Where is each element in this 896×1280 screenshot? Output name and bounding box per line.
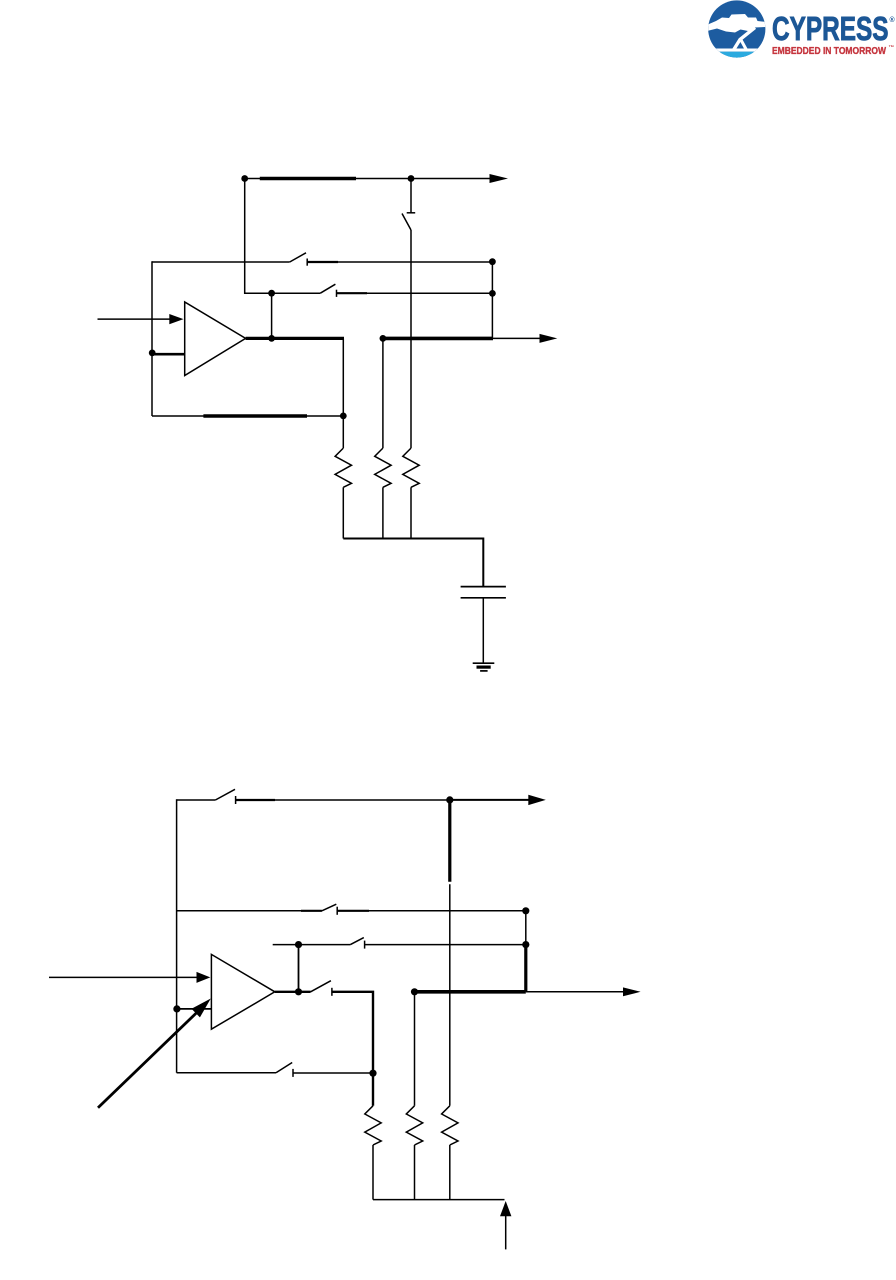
wire right bus thick lower (524, 945, 527, 992)
wire SW6 left stub (273, 944, 299, 946)
wire input 1 (98, 318, 171, 320)
arrow reference up (500, 1201, 511, 1216)
node feedback junction (340, 413, 347, 420)
wire SW7 to elbow down (332, 992, 373, 1106)
resistor R5 (406, 1106, 422, 1145)
ground symbol (473, 663, 495, 671)
wire SW1 bold segment (307, 261, 338, 263)
wire node A down elbow (245, 179, 272, 294)
wire SW2 to right bus (337, 292, 493, 294)
svg-text:™: ™ (889, 45, 895, 51)
switch SW5 contact (336, 907, 338, 915)
capacitor C1 bottom plate (461, 597, 506, 599)
wire left rail fig2 (176, 799, 178, 1073)
capacitor C1 top plate (461, 586, 506, 588)
wire inverting input fig2 (177, 1008, 212, 1010)
wire R5 bottom lead (414, 1145, 416, 1200)
wire SW6 to right bus (365, 944, 526, 946)
node top output junction (446, 796, 453, 803)
switch SW6 contact (364, 941, 366, 949)
wire thin continuation down to R3 (449, 884, 451, 1106)
arrow main output fig2 (623, 987, 641, 996)
arrow top output fig2 (528, 795, 546, 805)
switch SW8 blade (276, 1063, 292, 1073)
wire left feedback rail (151, 261, 153, 416)
tree trunk (734, 28, 756, 51)
wire SW4 bold segment (236, 799, 275, 801)
switch SW7 blade (311, 981, 331, 992)
wire SW6 junction down to output (298, 945, 300, 992)
wire R1 bottom lead (342, 487, 344, 538)
wire SW5 bold pre-blade segment (301, 910, 322, 912)
wire op-amp output stub (275, 991, 311, 993)
wire bottom rail to capacitor (343, 539, 483, 587)
wire bus down to R2 fig2 (414, 992, 416, 1106)
svg-text:CYPRESS: CYPRESS (772, 10, 889, 47)
wire SW8 to junction (293, 1072, 373, 1074)
tree canopy (703, 14, 770, 33)
wire bottom rail fig2 (373, 1199, 505, 1201)
wire capacitor to ground (482, 599, 484, 664)
switch SW1 contact (306, 259, 308, 266)
wire to top arrow (450, 799, 529, 801)
water gap (705, 49, 769, 52)
wire SW5 bold segment (337, 910, 369, 912)
arrow input 1 (169, 314, 183, 324)
wire output bus to arrow fig2 (526, 991, 624, 993)
op-amp U2 (211, 954, 274, 1029)
node SW6 left junction (295, 941, 302, 948)
svg-text:EMBEDDED IN TOMORROW: EMBEDDED IN TOMORROW (772, 46, 886, 57)
wire SW3 down to resistor R3 (410, 230, 412, 448)
wire R6 bottom lead (449, 1145, 451, 1200)
node output bus left (380, 335, 387, 342)
switch SW4 contact (235, 796, 237, 804)
wire SW2 input segment (272, 292, 321, 294)
switch SW4 blade (215, 789, 235, 800)
wire R4 bottom lead (372, 1145, 374, 1200)
wire SW8 input segment (177, 1072, 276, 1074)
resistor R1 (335, 448, 351, 487)
switch SW7 contact (331, 988, 333, 996)
switch SW5 blade (322, 904, 336, 911)
wire output bus thick fig2 (415, 990, 526, 994)
wire SW6 input segment (299, 944, 351, 946)
wire top bus to arrow (411, 178, 490, 180)
light blue water (705, 52, 769, 62)
resistor R6 (442, 1106, 458, 1145)
wire feedback bottom (152, 415, 343, 417)
wire SW5 to right bus (337, 910, 526, 912)
node top bus (408, 175, 415, 182)
switch SW8 contact (292, 1069, 294, 1077)
wire bus down to R2 (382, 338, 384, 448)
node bottom switch junction (369, 1070, 376, 1077)
switch SW6 blade (350, 938, 363, 945)
arrow input 1 fig2 (197, 972, 211, 983)
node op-amp output fig2 (295, 988, 302, 995)
wire output bus to arrow (493, 337, 540, 339)
node A top-left junction (241, 175, 248, 182)
switch SW1 blade (290, 253, 306, 262)
wire SW4 to node (236, 799, 450, 801)
big callout arrowhead (192, 999, 211, 1018)
wire R3 bottom lead (410, 487, 412, 538)
wire R2 bottom lead (382, 487, 384, 538)
node inverting input fig2 (173, 1005, 180, 1012)
wire switch SW1 input segment (152, 261, 290, 263)
node SW2 left junction (268, 290, 275, 297)
resistor R4 (365, 1106, 381, 1145)
resistor bar top bus (260, 177, 356, 180)
arrow main output (540, 334, 558, 343)
switch SW3 upper lead (410, 179, 412, 213)
node on op-amp output (268, 335, 275, 342)
resistor R2 (375, 448, 391, 487)
resistor bar feedback (203, 414, 307, 418)
switch SW3 blade (402, 214, 411, 231)
wire top bus (245, 178, 411, 180)
switch SW3 contact (407, 212, 416, 214)
wire SW2 junction to op-amp output (271, 293, 273, 338)
node inverting input (149, 350, 156, 357)
wire SW2 bold segment (337, 292, 368, 294)
arrow top output (490, 174, 509, 183)
switch SW2 contact (336, 290, 338, 297)
wire op-amp output bold (246, 337, 344, 340)
node right bus mid fig2 (522, 941, 529, 948)
wire output bus bold (383, 337, 493, 341)
svg-text:®: ® (890, 16, 896, 24)
wire right bus vertical (491, 262, 493, 339)
op-amp U1 (185, 302, 246, 376)
wire thick vertical from top node (448, 800, 451, 882)
switch SW2 blade (320, 284, 335, 293)
node output bus left fig2 (411, 988, 418, 995)
wire SW1 to right bus (307, 261, 492, 263)
node right bus top (489, 258, 496, 265)
wire reference arrow lead (505, 1215, 507, 1249)
wire input 1 fig2 (49, 976, 197, 978)
Cypress logo (703, 0, 896, 61)
wire right bus upper (525, 911, 527, 945)
wire output down to R1 (342, 338, 344, 448)
resistor R3 (403, 448, 419, 487)
wire SW4 input segment (177, 799, 216, 801)
wire inverting input (152, 353, 185, 356)
node right bus top fig2 (522, 907, 529, 914)
big callout arrow line (98, 1011, 199, 1108)
node right bus mid (489, 290, 496, 297)
wire SW5 input segment (177, 910, 322, 912)
